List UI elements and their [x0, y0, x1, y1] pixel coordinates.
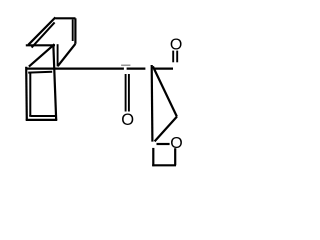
- bond oxetane left edge: [152, 148, 154, 166]
- bond ring-mid horizontal: [26, 44, 55, 46]
- bond ring-mid short vertical (double bond): [57, 44, 59, 66]
- bond C=O aldehyde left line: [172, 51, 174, 63]
- svg-text:O: O: [170, 37, 182, 54]
- bond oxetane right edge: [174, 148, 176, 165]
- wire chain bond segment A: [27, 67, 124, 69]
- svg-text:O: O: [121, 111, 134, 129]
- bond C-O to oxetane oxygen: [157, 143, 170, 145]
- bond cyclopropane upper diagonal: [153, 66, 177, 116]
- bond ring-B top inner (double bond): [28, 71, 52, 74]
- wire chain bond segment B: [127, 67, 146, 69]
- bond ring-B left edge: [25, 67, 28, 120]
- bond spiro vertical: [151, 65, 154, 142]
- bond C=O ketone left line: [125, 74, 127, 112]
- bond oxetane bottom edge: [152, 164, 176, 166]
- bond ring-A lower-right diagonal: [58, 44, 76, 66]
- bond ring-B bottom inner (double bond): [29, 115, 55, 117]
- bond ring-mid diagonal: [29, 44, 55, 66]
- bond ring-B right edge long: [53, 46, 56, 120]
- notch white pinhole at ring-B inner corner: [29, 117, 31, 119]
- bond C=O ketone right line: [128, 74, 130, 112]
- bond ring-B left inner (double bond): [29, 74, 31, 117]
- bond ring-A top horizontal: [55, 17, 75, 19]
- svg-text:O: O: [170, 135, 182, 152]
- bond C=O aldehyde right line: [176, 51, 178, 63]
- wire chain bond segment C: [155, 67, 174, 69]
- bond ring-B bottom edge: [26, 119, 58, 121]
- bond ring-A diagonal inner (double bond): [32, 22, 55, 47]
- bond ring-A right vertical: [74, 18, 76, 44]
- bond ring-A diagonal outer: [28, 17, 55, 44]
- bond cyclopropane lower diagonal: [155, 117, 177, 142]
- bond ring-A right inner vertical (double bond): [72, 20, 74, 42]
- artifact faint line above ketone carbon: [121, 64, 130, 66]
